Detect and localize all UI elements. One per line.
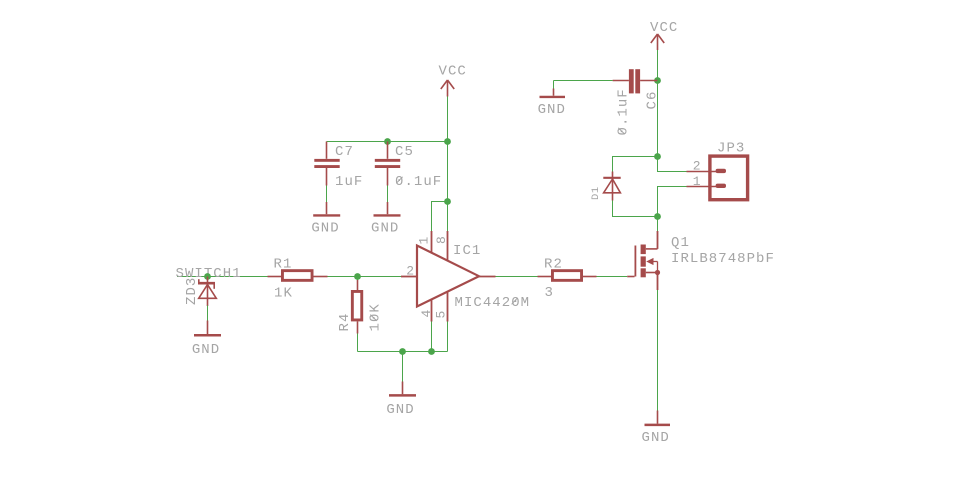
svg-text:C6: C6 (645, 91, 661, 110)
svg-text:VCC: VCC (650, 20, 678, 36)
svg-text:3: 3 (545, 285, 554, 301)
svg-text:ZD3: ZD3 (184, 277, 200, 305)
zener diode ZD3 (198, 277, 216, 307)
svg-text:R1: R1 (274, 257, 293, 273)
wire pin4 drop (431, 322, 433, 352)
svg-text:D1: D1 (590, 186, 602, 200)
wire riser to Q1 drain (657, 217, 659, 232)
svg-text:IRLB8748PbF: IRLB8748PbF (671, 251, 775, 267)
node R4 junction (354, 273, 361, 280)
svg-text:1uF: 1uF (335, 174, 363, 190)
svg-text:10K: 10K (368, 303, 384, 331)
node C6 junction (654, 77, 661, 84)
svg-text:GND: GND (371, 221, 399, 237)
svg-text:GND: GND (538, 102, 566, 118)
node ground rail / pin4 (428, 348, 435, 355)
wire Q1 source to ground (657, 290, 659, 411)
wire branch to pin8 (447, 202, 449, 232)
wire D1 bottom branch (613, 201, 658, 217)
svg-text:0.1uF: 0.1uF (395, 174, 442, 190)
supply VCC (left) (441, 80, 454, 97)
svg-text:IC1: IC1 (453, 243, 481, 259)
wire junction to R4 (357, 277, 359, 281)
svg-text:0.1uF: 0.1uF (616, 88, 632, 135)
diode D1 (603, 172, 620, 201)
node VCC rail junction (444, 138, 451, 145)
resistor R1 (268, 271, 328, 281)
svg-text:JP3: JP3 (717, 141, 745, 157)
capacitor C6 (613, 69, 658, 93)
node SWITCH1/ZD3 junction (204, 273, 211, 280)
node pin1/pin8 branch (444, 198, 451, 205)
value 0.1uF (C6) (616, 88, 632, 135)
node D1/JP3 top junction (654, 153, 661, 160)
wire pin5 riser (447, 322, 449, 352)
wire C7 to ground (326, 186, 328, 203)
wire input net SWITCH1 (177, 276, 268, 278)
wire R1 to IC1 pin2 (328, 276, 402, 278)
ground GND mid (389, 382, 416, 396)
svg-text:C7: C7 (335, 144, 354, 160)
wire top rail C7/C5 (327, 141, 448, 143)
wire ground rail (358, 351, 448, 353)
svg-text:GND: GND (311, 221, 339, 237)
svg-text:2: 2 (406, 264, 414, 279)
supply VCC (right) (651, 34, 664, 50)
svg-text:R4: R4 (337, 313, 353, 332)
node ground rail / GND stub (399, 348, 406, 355)
value 10K (368, 303, 384, 331)
svg-text:5: 5 (434, 310, 449, 318)
capacitor C7 (314, 142, 339, 186)
svg-text:C5: C5 (395, 144, 414, 160)
svg-text:8: 8 (434, 236, 449, 244)
ground GND bottom (645, 411, 671, 425)
ground GND (C6) (540, 89, 566, 97)
resistor R4 (352, 280, 361, 334)
wire stub to GND (402, 352, 404, 382)
capacitor C5 (375, 142, 400, 186)
op-amp driver IC1 MIC4420M (401, 231, 496, 322)
ground GND below ZD3 (194, 321, 221, 336)
svg-text:1: 1 (693, 174, 701, 189)
ground GND below C7 (313, 202, 340, 215)
wire D1 top branch (613, 157, 658, 172)
resistor R2 (538, 271, 597, 281)
wire IC1 output to R2 (496, 276, 538, 278)
svg-text:GND: GND (386, 402, 414, 418)
svg-text:Q1: Q1 (671, 235, 690, 251)
svg-text:2: 2 (693, 159, 701, 174)
wire GND drop (553, 81, 555, 89)
ground GND below C5 (374, 202, 401, 215)
wire VCC left stem (447, 97, 449, 142)
wire C5 to ground (387, 186, 389, 203)
wire to JP3 pin1 (658, 187, 687, 217)
svg-text:4: 4 (419, 309, 434, 317)
node C5 top junction (384, 138, 391, 145)
svg-text:1: 1 (417, 236, 432, 244)
node D1/JP3 bottom junction (654, 213, 661, 220)
wire VCC right stem (657, 50, 659, 81)
svg-text:VCC: VCC (439, 64, 467, 80)
svg-text:1K: 1K (274, 286, 293, 302)
transistor Q1 (627, 231, 660, 290)
svg-text:R2: R2 (544, 257, 563, 273)
wire branch to pin1 (432, 202, 448, 232)
wire right riser (657, 81, 659, 157)
wire R4 to ground rail (357, 334, 359, 352)
svg-text:MIC4420M: MIC4420M (455, 295, 531, 311)
wire C6 to GND corner (554, 80, 613, 82)
connector JP3 (687, 156, 748, 200)
wire ZD3 to ground (207, 306, 209, 321)
wire R2 to Q1 gate (597, 276, 628, 278)
svg-text:GND: GND (642, 430, 670, 446)
wire VCC riser to IC (447, 142, 449, 202)
svg-text:GND: GND (192, 342, 220, 358)
wire to JP3 pin2 (658, 157, 687, 172)
